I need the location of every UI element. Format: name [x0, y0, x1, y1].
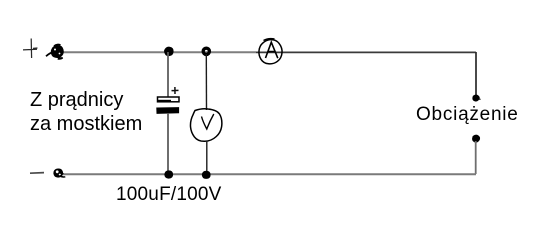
- ammeter A1 top overshoot: [264, 39, 275, 41]
- voltmeter V1 letter: [202, 114, 214, 129]
- label capacitor value: [116, 184, 222, 206]
- voltmeter V1 body: [190, 109, 221, 142]
- capacitor C1 top plate: [158, 97, 180, 102]
- wire voltmeter branch lower: [206, 141, 208, 174]
- node junction voltmeter top (open ring): [203, 48, 209, 54]
- terminal scribble top-left: [46, 44, 64, 59]
- wire top rail left (gray): [61, 51, 256, 53]
- wire bottom rail: [62, 173, 476, 175]
- plus sign input: [23, 39, 38, 59]
- capacitor C1 bottom plate: [157, 108, 179, 114]
- node junction voltmeter bottom: [202, 171, 210, 178]
- minus sign input: [30, 172, 44, 175]
- wire top rail right (dark): [256, 51, 476, 53]
- ammeter A1 letter: [266, 42, 278, 58]
- wire capacitor branch upper: [167, 52, 169, 97]
- wire right vertical lower: [475, 141, 477, 174]
- ammeter A1 body: [259, 40, 282, 64]
- terminal scribble bottom-left: [53, 168, 65, 177]
- wire voltmeter branch upper: [205, 54, 207, 110]
- node upper load terminal: [473, 95, 481, 101]
- node junction cap top: [165, 47, 174, 55]
- capacitor C1 plus label: [172, 87, 179, 94]
- wire capacitor branch lower: [167, 113, 169, 174]
- node lower load terminal: [473, 135, 480, 142]
- label source text: [30, 88, 142, 136]
- node junction cap bottom: [165, 171, 173, 178]
- wire right vertical upper: [475, 52, 477, 96]
- label load: [416, 104, 519, 126]
